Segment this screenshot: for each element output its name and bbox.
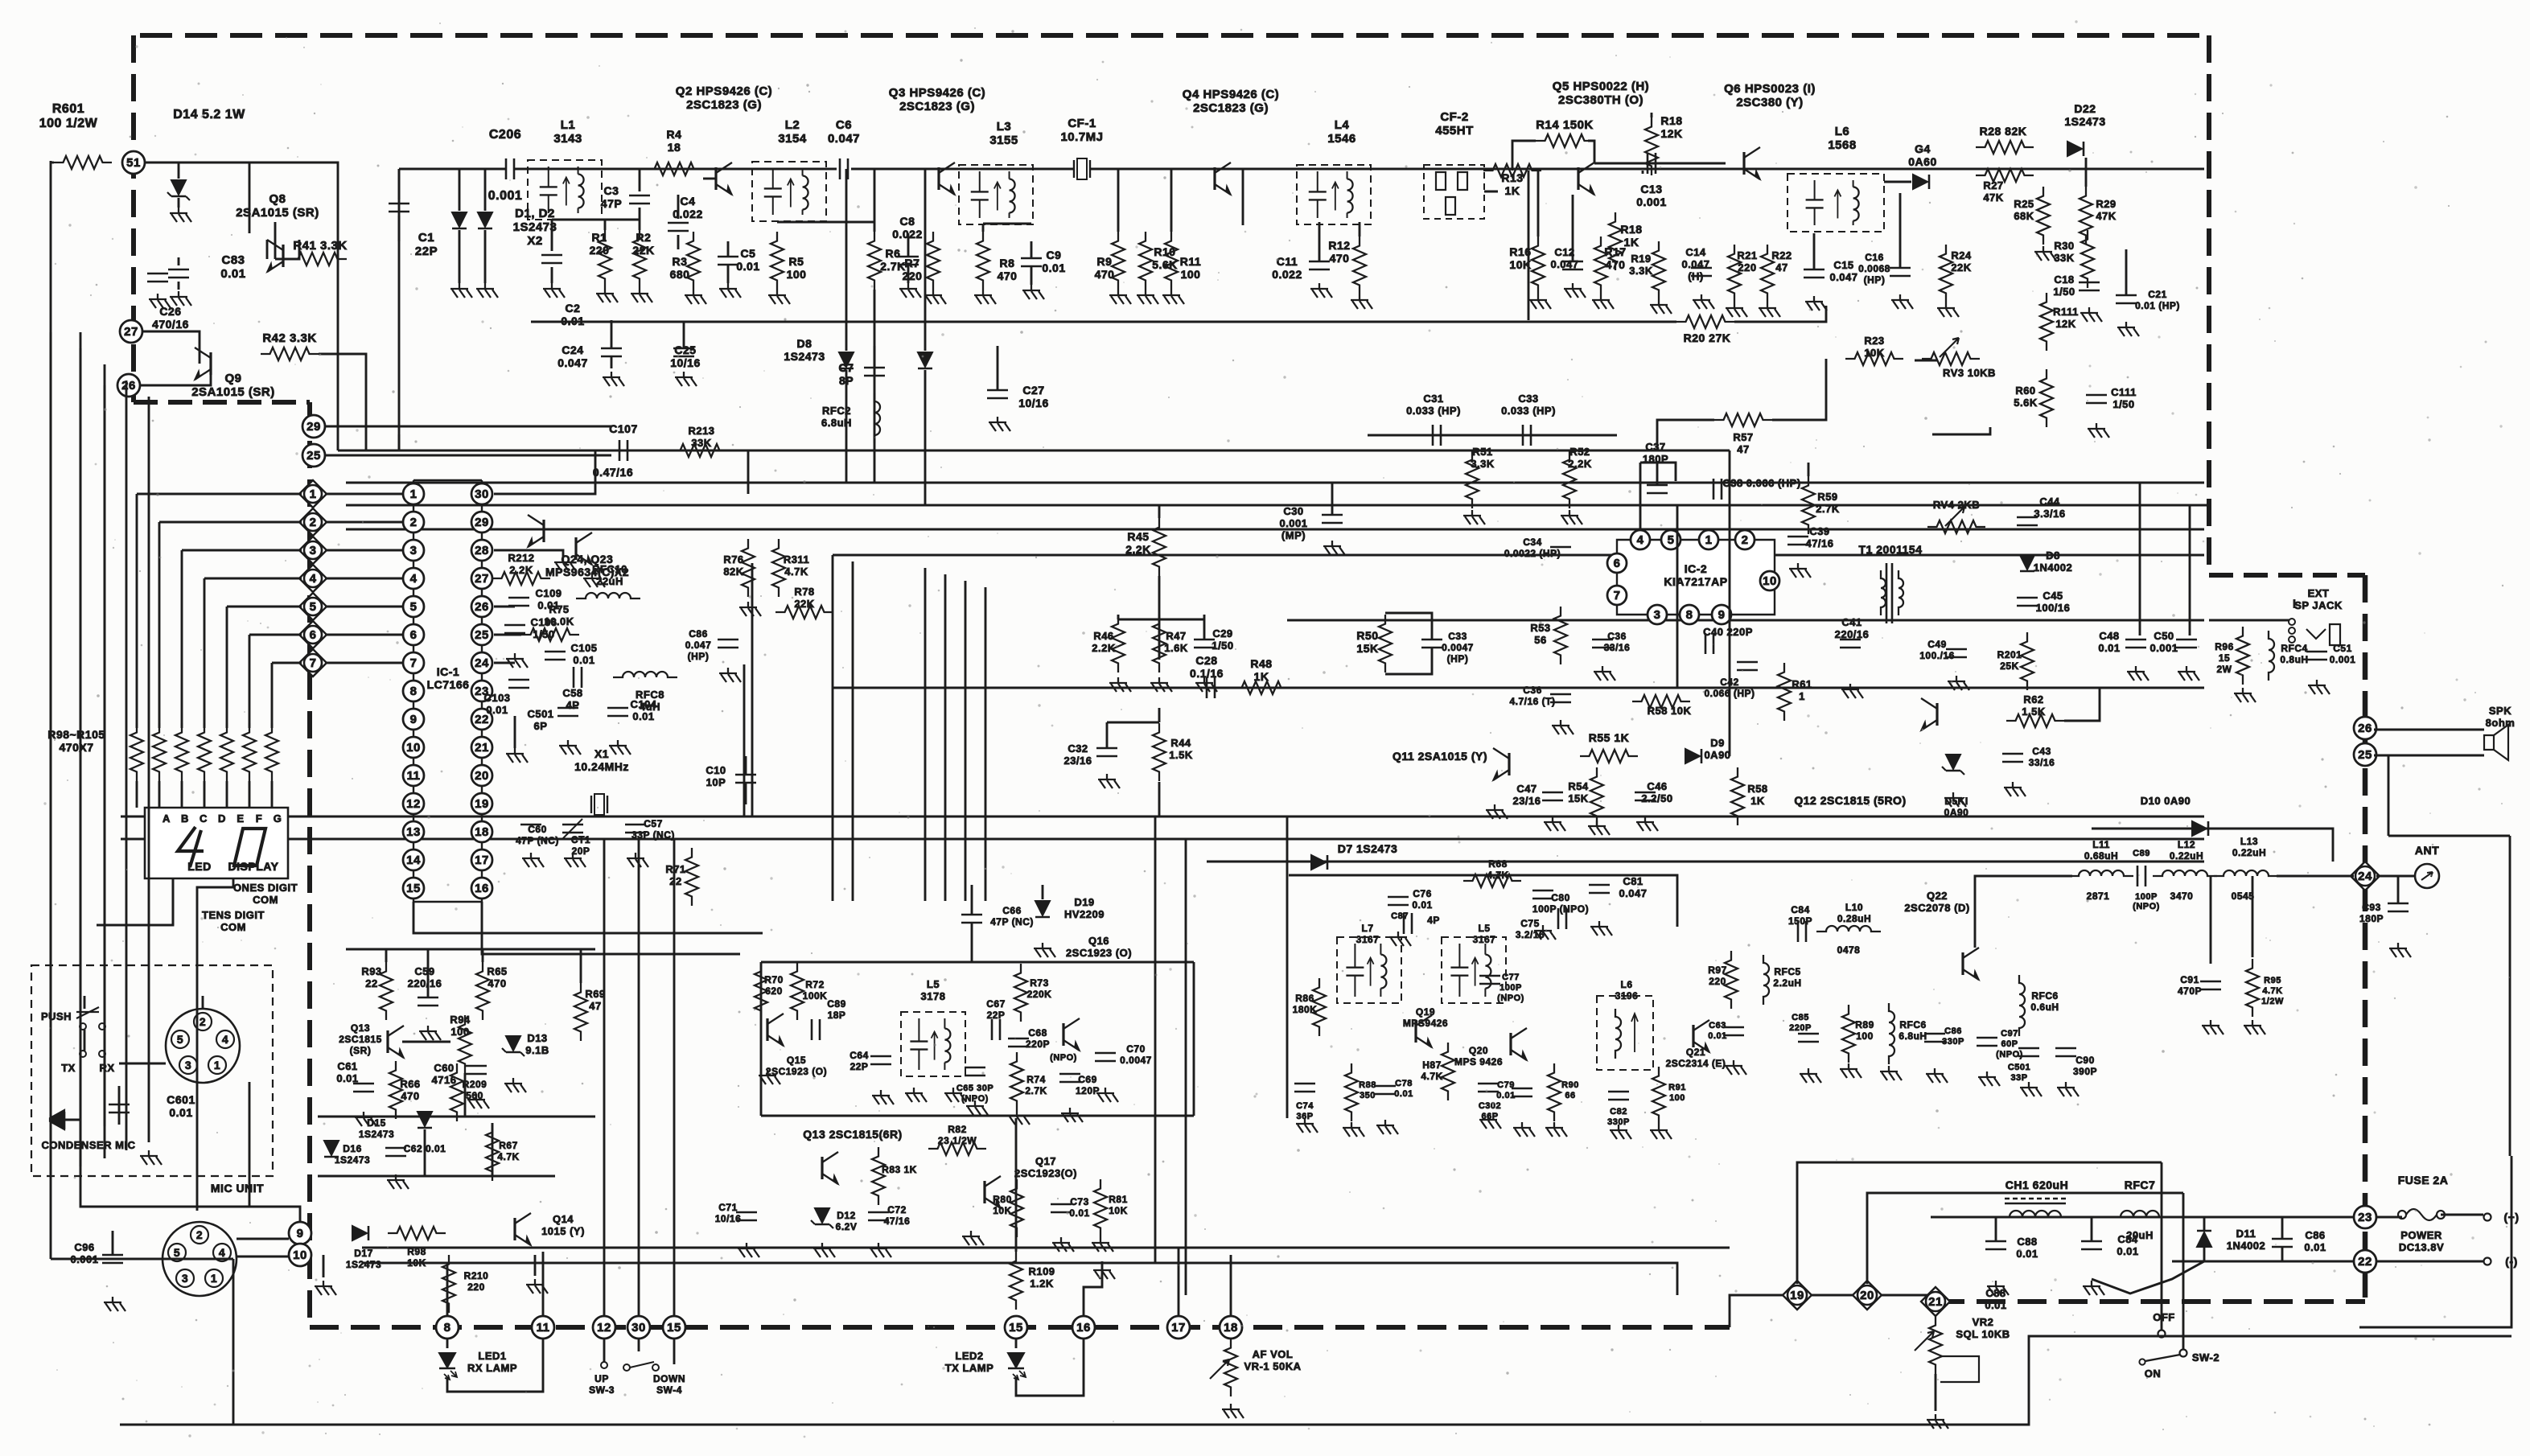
capacitor C66b [961, 914, 982, 916]
svg-text:470: 470 [1330, 252, 1350, 265]
svg-text:47K: 47K [1983, 191, 2003, 204]
wire stage3 bottom tie [983, 223, 1031, 225]
svg-text:R210: R210 [464, 1270, 489, 1281]
svg-text:HV2209: HV2209 [1064, 908, 1105, 920]
svg-text:2SC1923 (O): 2SC1923 (O) [766, 1066, 827, 1077]
wire node 1 to IC-1 [325, 493, 403, 496]
mic unit dashed box [31, 965, 273, 1176]
wire q16 box bottom [761, 1115, 1194, 1117]
svg-text:4: 4 [222, 1033, 228, 1046]
svg-text:(NPO): (NPO) [961, 1094, 989, 1104]
svg-text:R73: R73 [1030, 977, 1049, 989]
svg-text:R67: R67 [499, 1140, 518, 1151]
svg-text:10P: 10P [706, 776, 726, 788]
diode D1 1S2473 [459, 169, 461, 211]
svg-text:C28: C28 [1195, 654, 1217, 667]
node 12 bottom [593, 1316, 615, 1339]
wire route C [398, 434, 401, 450]
resistor R9 [1112, 232, 1125, 290]
svg-text:0.1/16: 0.1/16 [1190, 667, 1224, 680]
IC-1 pin 18 [471, 821, 492, 842]
diode D2 1S2473 [484, 169, 487, 211]
svg-text:R83 1K: R83 1K [882, 1164, 917, 1175]
svg-text:C15: C15 [1833, 259, 1853, 271]
svg-text:R23: R23 [1864, 335, 1884, 347]
svg-text:25K: 25K [2000, 660, 2019, 672]
svg-text:Q6 HPS0023 (I): Q6 HPS0023 (I) [1724, 82, 1816, 96]
svg-text:56: 56 [1534, 634, 1546, 646]
transistor Q22 [1961, 952, 1964, 975]
wire IC1 bottom exit 1 [413, 902, 763, 933]
svg-text:15: 15 [667, 1321, 681, 1335]
svg-text:Q5 HPS0022 (H): Q5 HPS0022 (H) [1553, 80, 1649, 93]
svg-text:C44: C44 [2039, 496, 2060, 508]
svg-text:Q17: Q17 [1035, 1155, 1056, 1167]
resistor R25 [2037, 187, 2050, 245]
capacitor C3 [639, 169, 641, 191]
potentiometer VR2 SQL [1929, 1316, 1942, 1374]
svg-text:R89: R89 [1855, 1019, 1874, 1030]
wire mid bus 2 [121, 838, 2204, 841]
wire mic switch link [84, 1030, 86, 1051]
wire left bottom long [232, 1259, 235, 1425]
resistor R29 [2080, 187, 2092, 245]
svg-text:36P: 36P [1296, 1112, 1313, 1121]
capacitor C65 [965, 1067, 985, 1069]
svg-text:C64: C64 [850, 1050, 869, 1061]
PCB boundary dashed step right [2209, 573, 2365, 578]
wire jack area vertical 2 [2189, 505, 2191, 635]
capacitor C21 [2116, 294, 2137, 297]
svg-text:33K: 33K [2054, 252, 2074, 264]
transistor Q21 [1692, 1025, 1694, 1047]
resistor R65 [476, 962, 489, 1020]
svg-text:C69: C69 [1078, 1074, 1097, 1085]
svg-text:RX: RX [99, 1062, 114, 1074]
resistor R58 [1632, 695, 1690, 708]
svg-text:R96: R96 [2215, 641, 2234, 652]
svg-text:10.7MJ: 10.7MJ [1060, 130, 1103, 144]
wire node25 h [325, 454, 611, 457]
svg-text:7: 7 [310, 656, 317, 670]
PCB boundary dashed border left lower [307, 402, 312, 1326]
svg-text:0.47/16: 0.47/16 [593, 466, 633, 479]
svg-text:560: 560 [466, 1090, 483, 1101]
svg-text:20: 20 [475, 769, 489, 783]
svg-text:R68: R68 [1488, 858, 1508, 870]
svg-text:R8: R8 [1000, 257, 1015, 269]
resistor R45 [1153, 518, 1166, 576]
svg-text:11: 11 [537, 1321, 550, 1335]
resistor R60 [2040, 369, 2053, 427]
svg-text:0.01: 0.01 [1496, 1091, 1515, 1100]
capacitor C61 [353, 1083, 374, 1085]
resistor R94 [459, 1015, 471, 1073]
transistor Q11 2SA1015 [1508, 753, 1510, 775]
svg-text:5: 5 [1668, 533, 1675, 547]
wire C24 hang [683, 322, 685, 348]
svg-text:(H): (H) [1688, 270, 1704, 282]
svg-text:R65: R65 [487, 965, 507, 977]
capacitor C25 electrolytic [673, 348, 694, 350]
svg-text:14: 14 [406, 853, 421, 867]
svg-text:29: 29 [475, 516, 489, 529]
svg-text:22K: 22K [1951, 261, 1971, 274]
capacitor C501b [2018, 1047, 2039, 1050]
capacitor C35 electrolytic [1592, 639, 1613, 641]
svg-text:(+): (+) [2504, 1211, 2520, 1224]
wire node51 to D14 [145, 162, 338, 450]
resistor R54 [1590, 767, 1603, 825]
svg-text:C71: C71 [718, 1202, 738, 1213]
svg-text:21: 21 [1928, 1295, 1943, 1309]
wire R50 C33 loop [1385, 613, 1432, 640]
svg-text:C1: C1 [418, 231, 434, 245]
wire segment bus 2 [159, 521, 302, 524]
svg-text:R48: R48 [1250, 657, 1272, 670]
wire connector to bottom [249, 1082, 251, 1207]
svg-text:L13: L13 [2240, 836, 2258, 847]
wire IC1 bottom exit 2 [482, 902, 740, 954]
svg-text:C109: C109 [535, 587, 562, 599]
wire LED2 bottom [1016, 1339, 1084, 1396]
svg-text:22K: 22K [632, 244, 654, 257]
svg-text:22: 22 [365, 977, 377, 989]
capacitor C96 [102, 1254, 123, 1257]
wire RF top rail [399, 168, 505, 171]
node 25 [302, 444, 325, 467]
svg-text:82K: 82K [723, 566, 743, 578]
svg-text:R18: R18 [1660, 114, 1682, 127]
svg-text:2SC2314 (E): 2SC2314 (E) [1666, 1058, 1726, 1069]
resistor R23 [1845, 352, 1903, 365]
svg-text:1/50: 1/50 [2053, 286, 2075, 298]
capacitor C45b [2017, 597, 2038, 599]
svg-text:455HT: 455HT [1435, 124, 1474, 138]
svg-text:18: 18 [668, 141, 681, 154]
svg-text:LED: LED [187, 860, 212, 873]
resistor R51 [1466, 450, 1479, 508]
wire speaker line [2293, 599, 2296, 608]
capacitor C88p [1985, 1240, 2006, 1243]
svg-text:CF-2: CF-2 [1440, 110, 1468, 124]
svg-text:0.01: 0.01 [1394, 1089, 1413, 1099]
capacitor C33 series [1522, 425, 1524, 446]
resistor R109 [1010, 1252, 1022, 1310]
svg-text:RFC4: RFC4 [2281, 643, 2307, 654]
node 26 speaker [2354, 717, 2376, 739]
svg-text:10/16: 10/16 [1018, 397, 1049, 409]
capacitor C8 [898, 256, 919, 258]
capacitor C64 [870, 1055, 891, 1058]
capacitor C206 [505, 158, 508, 179]
svg-text:R50: R50 [1356, 629, 1378, 642]
wire node 3 to IC-1 [325, 549, 403, 552]
resistor R24 [1940, 245, 1952, 302]
svg-text:0.01: 0.01 [1985, 1299, 2006, 1311]
transformer L6b [1597, 996, 1653, 1070]
wire RF rail 3 [851, 168, 1074, 171]
resistor R66 [389, 1061, 402, 1119]
svg-text:R58 10K: R58 10K [1648, 705, 1692, 717]
svg-text:470: 470 [401, 1090, 419, 1102]
IC-1 pin 26 [471, 596, 492, 617]
svg-text:1S2473: 1S2473 [784, 350, 825, 363]
svg-text:18: 18 [475, 825, 489, 839]
svg-text:23/16: 23/16 [1063, 755, 1092, 767]
crystal X1 [591, 796, 607, 813]
wire mid bus 3 [1207, 861, 2204, 863]
svg-text:20uH: 20uH [2126, 1229, 2154, 1241]
wire drop 3 [181, 550, 183, 728]
svg-text:CONDENSER MIC: CONDENSER MIC [41, 1139, 135, 1151]
LED display digit 0 [234, 829, 265, 866]
svg-text:3154: 3154 [778, 132, 807, 146]
LED2 TX lamp [1015, 1339, 1018, 1348]
wire node12 riser [603, 839, 606, 1316]
wire left bottom horiz [80, 1166, 300, 1222]
resistor R7 [927, 232, 940, 290]
svg-text:20: 20 [1860, 1289, 1874, 1302]
wire Q13 row [402, 1041, 450, 1043]
svg-text:R212: R212 [508, 552, 534, 564]
svg-text:22uH: 22uH [596, 575, 623, 587]
transistor Q3 [937, 167, 940, 190]
svg-text:R20 27K: R20 27K [1684, 331, 1731, 344]
svg-text:0.001: 0.001 [2330, 654, 2356, 665]
svg-text:C75: C75 [1520, 918, 1540, 929]
svg-text:SP JACK: SP JACK [2294, 599, 2343, 611]
svg-text:23/16: 23/16 [1512, 795, 1541, 807]
svg-text:8: 8 [410, 685, 418, 698]
wire pin28 gnd [494, 550, 563, 557]
svg-text:33P (NC): 33P (NC) [631, 829, 675, 841]
ANT terminal [2415, 864, 2439, 888]
wire D5 down [924, 370, 927, 505]
svg-text:24: 24 [2358, 870, 2372, 883]
capacitor C57 [625, 824, 646, 826]
wire long vertical 3 [104, 364, 106, 1158]
wire mic internal 2 [118, 1086, 121, 1125]
svg-text:C36: C36 [1607, 631, 1627, 642]
wire node26 to Q9 base [140, 375, 211, 385]
svg-text:C111: C111 [2111, 386, 2137, 398]
wire LED1 bottom [447, 1339, 543, 1392]
switch SW-3 UP [601, 1362, 607, 1368]
svg-text:C88: C88 [1985, 1287, 2005, 1299]
svg-text:C5: C5 [741, 247, 756, 260]
svg-text:L5: L5 [927, 978, 940, 990]
svg-text:4.7K: 4.7K [2262, 986, 2282, 996]
resistor R20 [1676, 315, 1734, 328]
svg-text:Q11 2SA1015 (Y): Q11 2SA1015 (Y) [1393, 750, 1487, 763]
capacitor C72 electrolytic [868, 1211, 889, 1214]
capacitor C63b [1723, 1026, 1744, 1029]
capacitor C11 [1309, 261, 1330, 263]
svg-text:330P: 330P [1607, 1117, 1630, 1127]
svg-text:390P: 390P [2073, 1066, 2097, 1077]
wire route A [338, 450, 1730, 452]
svg-text:0478: 0478 [1837, 944, 1861, 956]
TX RX contacts [80, 1051, 86, 1057]
resistor R21 [1728, 245, 1741, 302]
capacitor C50 [2176, 639, 2197, 641]
resistor R78 [775, 606, 833, 619]
svg-text:R74: R74 [1026, 1074, 1046, 1085]
svg-text:(NPO): (NPO) [1497, 993, 1524, 1003]
resistor R19 [1652, 241, 1665, 299]
capacitor C109 [508, 597, 529, 599]
svg-text:1S2473: 1S2473 [2064, 115, 2105, 128]
svg-text:C14: C14 [1685, 246, 1706, 258]
wire CF2 R13 [1484, 191, 1498, 193]
svg-text:R25: R25 [2014, 198, 2034, 210]
capacitor C42 [1737, 661, 1758, 664]
svg-text:D11: D11 [2236, 1228, 2256, 1240]
svg-text:9: 9 [1718, 608, 1726, 622]
wire stage2 bottom tie [777, 221, 874, 224]
svg-text:68K: 68K [2014, 210, 2034, 222]
IC-1 pin 29 [471, 512, 492, 533]
svg-text:R201: R201 [1997, 649, 2022, 660]
svg-text:0.01: 0.01 [1069, 1207, 1089, 1219]
svg-text:(NPO): (NPO) [1050, 1053, 1077, 1063]
svg-text:RV4 2KB: RV4 2KB [1933, 499, 1980, 511]
svg-text:0.01: 0.01 [736, 260, 759, 273]
switch SW-2 [2158, 1331, 2166, 1338]
IC-1 pin 12 [403, 793, 424, 814]
svg-text:3: 3 [185, 1059, 191, 1071]
svg-text:C90: C90 [2075, 1055, 2095, 1066]
node 3 diamond [299, 537, 327, 564]
svg-text:15K: 15K [1356, 642, 1378, 655]
svg-text:0.01: 0.01 [632, 710, 654, 722]
resistor R89 [1842, 1005, 1855, 1063]
svg-text:C83: C83 [221, 253, 245, 267]
node 8 bottom [436, 1316, 459, 1339]
svg-text:9: 9 [410, 713, 418, 726]
transistor Q13b [821, 1157, 823, 1179]
svg-text:3.3/16: 3.3/16 [2034, 508, 2065, 520]
resistor R8 [977, 232, 989, 290]
svg-text:C76: C76 [1413, 888, 1432, 899]
svg-text:R76: R76 [723, 553, 743, 566]
LED display digit 4 [178, 827, 204, 867]
svg-text:Q22: Q22 [1927, 890, 1948, 902]
wire right side return 2 [2388, 835, 2510, 837]
PCB boundary dashed step left [134, 400, 310, 405]
svg-text:Q21: Q21 [1686, 1047, 1705, 1058]
svg-text:4.7/16 (T): 4.7/16 (T) [1509, 696, 1555, 707]
svg-text:C107: C107 [609, 422, 637, 435]
wire 855 extension [1331, 687, 2204, 689]
capacitor C46 [2125, 639, 2146, 641]
wire node11 riser [542, 1252, 545, 1316]
svg-text:0.033 (HP): 0.033 (HP) [1406, 405, 1461, 417]
resistor R97 [1725, 951, 1738, 1009]
svg-text:PUSH: PUSH [41, 1010, 72, 1022]
svg-text:120P: 120P [1076, 1085, 1100, 1096]
svg-text:0.01 (HP): 0.01 (HP) [2135, 300, 2180, 311]
wire long vertical 1 [50, 332, 52, 1174]
wire main bus 2 [346, 504, 2209, 507]
svg-text:R55 1K: R55 1K [1589, 731, 1629, 744]
LED display box [145, 808, 288, 878]
svg-text:22P: 22P [415, 245, 438, 258]
svg-text:CT1: CT1 [571, 834, 590, 845]
svg-text:11: 11 [407, 769, 421, 783]
IC-1 pin 28 [471, 540, 492, 561]
svg-text:C58: C58 [562, 687, 582, 699]
svg-text:1568: 1568 [1828, 138, 1856, 152]
svg-text:0.01: 0.01 [2117, 1245, 2138, 1257]
resistor R212 [492, 572, 550, 585]
switch SW-4 DOWN [623, 1364, 630, 1371]
diode D7 [1311, 855, 1326, 870]
svg-text:R24: R24 [1951, 249, 1972, 261]
resistor R914 [265, 723, 278, 781]
transistor Q23 [574, 537, 577, 560]
capacitor C1 [398, 169, 401, 199]
svg-text:2.2K: 2.2K [1092, 642, 1116, 654]
resistor R98 [130, 723, 143, 781]
capacitor C47 electrolytic [1542, 792, 1563, 794]
resistor R90 [1548, 1063, 1561, 1121]
wire Q22 to L11 [1975, 876, 2072, 948]
resistor R59 [1802, 476, 1815, 534]
svg-text:8: 8 [1686, 608, 1693, 622]
IC-2 pin 4 [1631, 530, 1650, 549]
wire R50 C33 loop2 [1385, 648, 1432, 674]
wire mid bus 1 [121, 816, 2204, 818]
svg-text:D8: D8 [2046, 549, 2060, 561]
IC-1 pin 20 [471, 765, 492, 786]
svg-text:0.01: 0.01 [2098, 642, 2120, 654]
inductor CH1 [2000, 1211, 2071, 1217]
capacitor C79b [1512, 1088, 1532, 1090]
svg-text:R30: R30 [2054, 240, 2074, 252]
chassis connector [162, 1222, 237, 1296]
svg-text:2.2uH: 2.2uH [1773, 977, 1801, 989]
svg-text:R19: R19 [1631, 253, 1651, 265]
svg-text:R58: R58 [1747, 783, 1767, 795]
resistor H87 [1442, 1043, 1454, 1100]
svg-text:10.24MHz: 10.24MHz [574, 760, 629, 773]
svg-text:0.047: 0.047 [1681, 258, 1709, 270]
svg-text:0.01: 0.01 [486, 704, 508, 716]
wire node20 up [1867, 1193, 2183, 1284]
svg-text:4: 4 [219, 1246, 225, 1259]
transistor Q17 [983, 1181, 985, 1203]
wire IF out line [1368, 434, 1617, 437]
svg-text:25: 25 [475, 628, 489, 642]
svg-text:SW-3: SW-3 [589, 1384, 615, 1396]
wire jack area vertical [2139, 483, 2141, 635]
svg-text:C97: C97 [2001, 1029, 2018, 1039]
speaker SPK [2484, 735, 2494, 750]
node 11 bottom [532, 1316, 554, 1339]
wire IF signal line [833, 687, 1331, 689]
svg-text:3: 3 [182, 1272, 188, 1285]
wire D10 line [2092, 829, 2333, 862]
capacitor C91 [2200, 981, 2221, 983]
svg-text:47P: 47P [601, 197, 622, 210]
svg-text:4P: 4P [1427, 915, 1440, 926]
wire ant line [2277, 875, 2354, 878]
resistor R67 [486, 1123, 499, 1181]
svg-text:220/16: 220/16 [1835, 628, 1870, 640]
svg-text:C21: C21 [2148, 289, 2167, 300]
